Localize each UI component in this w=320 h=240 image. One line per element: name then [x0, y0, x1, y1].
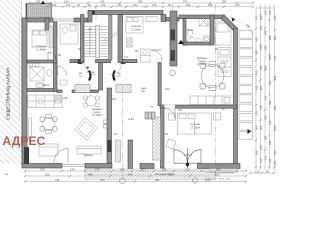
svg-text:120: 120: [259, 25, 263, 30]
svg-text:296: 296: [273, 75, 277, 80]
svg-text:220: 220: [140, 167, 145, 171]
svg-text:Баня: Баня: [43, 83, 50, 87]
svg-text:345: 345: [36, 0, 41, 3]
svg-text:360: 360: [255, 125, 259, 130]
svg-text:230: 230: [70, 167, 75, 171]
svg-text:585: 585: [155, 178, 160, 182]
svg-text:240: 240: [63, 96, 68, 100]
svg-text:220: 220: [268, 120, 272, 125]
svg-text:220: 220: [259, 145, 263, 150]
svg-text:АДРЕС: АДРЕС: [3, 134, 46, 148]
svg-text:600: 600: [45, 172, 50, 176]
svg-text:400: 400: [128, 172, 133, 176]
svg-text:280: 280: [268, 35, 272, 40]
svg-text:тер.: тер.: [141, 90, 146, 93]
svg-text:27.45м²: 27.45м²: [92, 113, 102, 117]
svg-text:27.05м²: 27.05м²: [197, 62, 207, 66]
svg-text:400: 400: [88, 172, 93, 176]
svg-text:620: 620: [100, 178, 105, 182]
svg-text:520: 520: [273, 55, 277, 60]
svg-text:160: 160: [52, 3, 57, 7]
svg-text:280: 280: [259, 15, 263, 20]
svg-text:125: 125: [152, 3, 157, 7]
svg-text:190: 190: [186, 3, 191, 7]
svg-text:400: 400: [259, 125, 263, 130]
svg-text:АПЗ.Р: АПЗ.Р: [184, 153, 192, 157]
svg-text:380: 380: [273, 35, 277, 40]
svg-text:160: 160: [178, 108, 183, 112]
svg-text:220: 220: [268, 10, 272, 15]
svg-text:260: 260: [208, 3, 213, 7]
svg-text:270: 270: [185, 167, 190, 171]
svg-text:120: 120: [255, 169, 260, 173]
svg-text:360: 360: [264, 135, 268, 140]
svg-text:380: 380: [255, 50, 259, 55]
svg-text:345: 345: [264, 45, 268, 50]
svg-text:ш.90: ш.90: [128, 117, 134, 121]
svg-text:795: 795: [55, 178, 60, 182]
svg-text:415: 415: [264, 95, 268, 100]
svg-text:180: 180: [259, 45, 263, 50]
svg-text:345: 345: [264, 115, 268, 120]
svg-text:370: 370: [183, 0, 188, 3]
svg-text:120: 120: [64, 0, 69, 3]
svg-text:280: 280: [259, 85, 263, 90]
svg-text:345: 345: [268, 100, 272, 105]
svg-text:160: 160: [273, 125, 277, 130]
svg-text:370: 370: [40, 167, 45, 171]
svg-text:560: 560: [268, 55, 272, 60]
svg-text:135: 135: [255, 110, 259, 115]
svg-text:370: 370: [255, 15, 259, 20]
svg-text:160: 160: [273, 150, 277, 155]
svg-text:Тераса: Тераса: [83, 153, 93, 157]
svg-text:120: 120: [112, 97, 117, 101]
svg-text:284: 284: [222, 0, 227, 3]
svg-text:345: 345: [273, 160, 277, 165]
svg-text:296: 296: [264, 30, 268, 35]
svg-text:415: 415: [255, 70, 259, 75]
svg-text:160: 160: [101, 3, 106, 7]
svg-text:340: 340: [268, 80, 272, 85]
svg-text:180: 180: [268, 140, 272, 145]
svg-text:17.32м²: 17.32м²: [190, 126, 200, 130]
svg-text:296: 296: [138, 0, 143, 3]
svg-text:280: 280: [264, 65, 268, 70]
svg-text:296: 296: [255, 150, 259, 155]
svg-text:260: 260: [273, 15, 277, 20]
svg-text:Площадка изток: Площадка изток: [155, 172, 176, 176]
svg-text:415: 415: [100, 0, 105, 3]
svg-text:Баня: Баня: [187, 28, 194, 32]
svg-text:125: 125: [259, 158, 263, 163]
svg-text:190: 190: [264, 10, 268, 15]
svg-text:120: 120: [124, 55, 129, 59]
svg-text:270: 270: [95, 167, 100, 171]
svg-text:Антре: Антре: [87, 70, 95, 74]
svg-text:380: 380: [273, 105, 277, 110]
svg-text:11.40м²: 11.40м²: [36, 48, 46, 52]
svg-text:200: 200: [162, 167, 167, 171]
svg-text:135: 135: [235, 3, 240, 7]
svg-text:360: 360: [216, 167, 221, 171]
svg-text:СЪЩЕСТВУВАЩ КАЛКАН: СЪЩЕСТВУВАЩ КАЛКАН: [6, 68, 11, 120]
svg-text:210: 210: [165, 87, 170, 91]
svg-text:345: 345: [255, 37, 259, 42]
svg-text:415: 415: [255, 85, 259, 90]
svg-text:н.к.: н.к.: [5, 173, 9, 176]
svg-text:125: 125: [264, 155, 268, 160]
svg-text:12.20м²: 12.20м²: [131, 28, 141, 32]
svg-text:200: 200: [120, 167, 125, 171]
svg-text:110: 110: [66, 3, 71, 7]
svg-text:260: 260: [259, 65, 263, 70]
svg-text:Вътрешна зид.: Вътрешна зид.: [219, 173, 235, 175]
svg-text:140: 140: [117, 3, 122, 7]
svg-text:180: 180: [259, 105, 263, 110]
svg-text:135: 135: [268, 158, 272, 163]
svg-text:Балк. площ: Балк. площ: [219, 179, 231, 181]
svg-text:200: 200: [133, 3, 138, 7]
